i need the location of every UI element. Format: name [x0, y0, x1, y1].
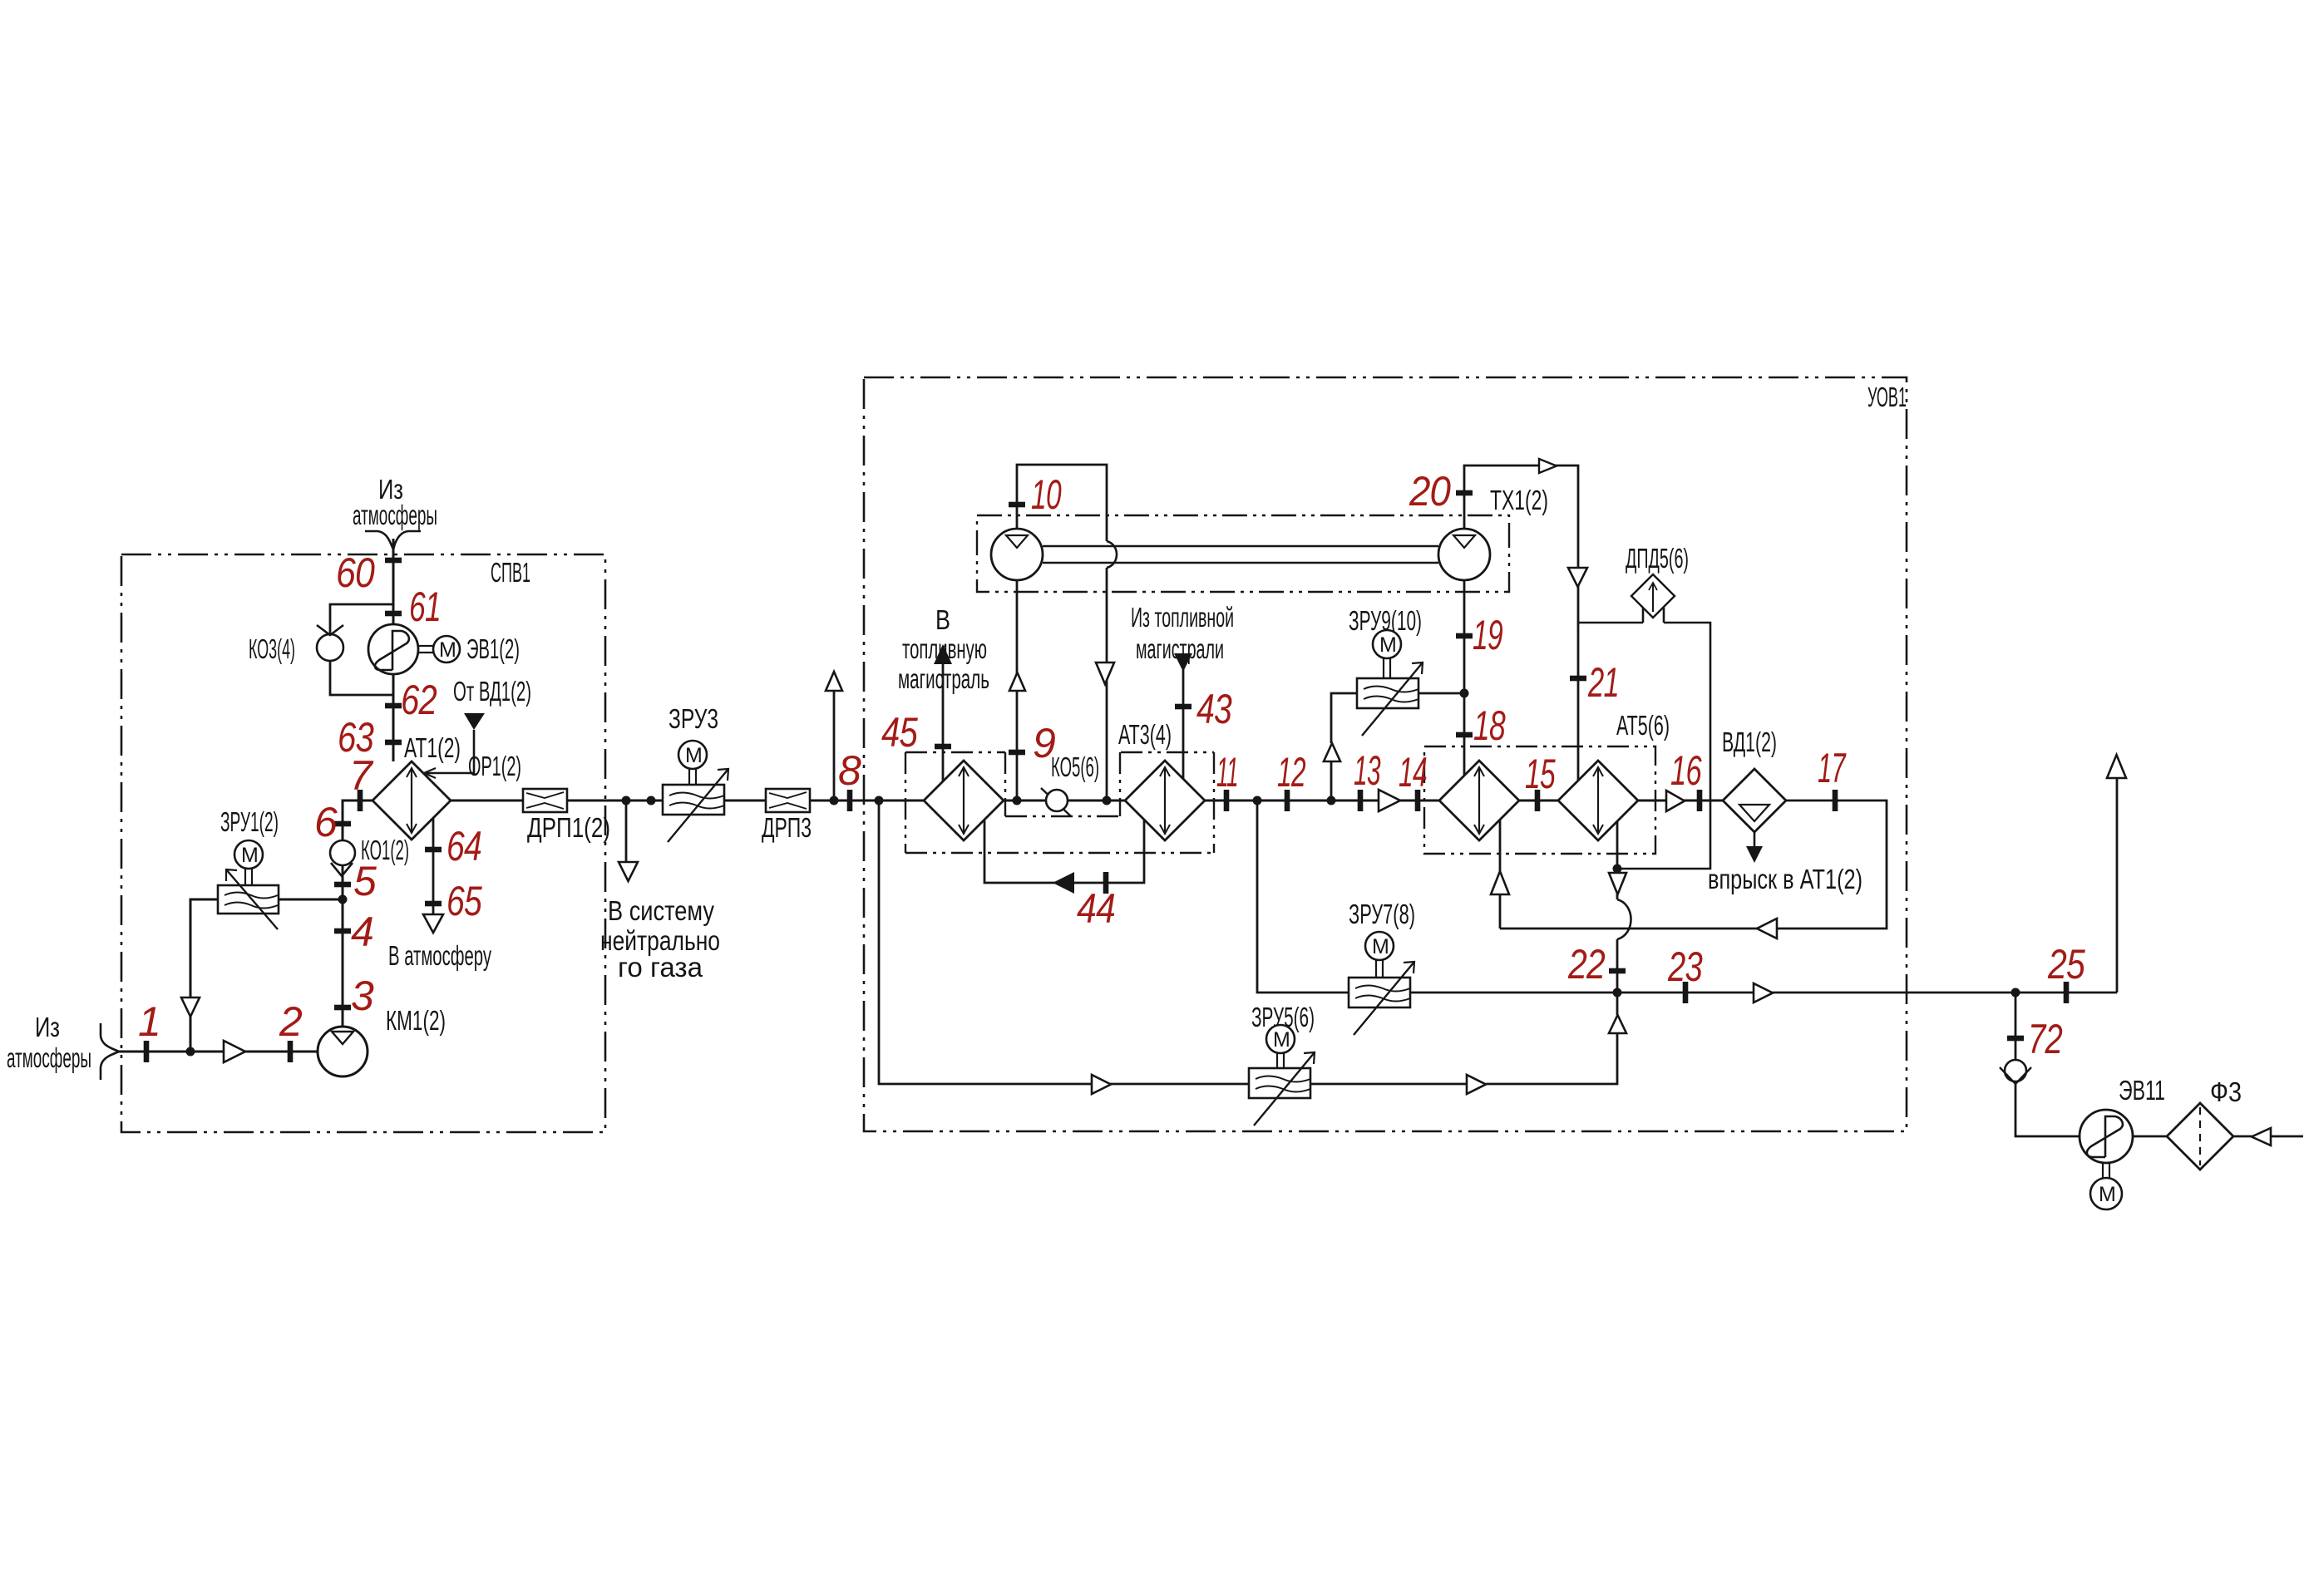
svg-text:63: 63 [338, 714, 374, 761]
svg-text:ЗРУ3: ЗРУ3 [669, 703, 718, 734]
node 6 [334, 821, 351, 827]
wire between АТ5 halves [1519, 800, 1558, 802]
check valve КО3(4) [317, 634, 343, 661]
node 15 [1535, 790, 1541, 811]
flow arrow right on top loop [1539, 459, 1557, 473]
svg-text:11: 11 [1216, 749, 1238, 796]
svg-text:Ф3: Ф3 [2210, 1076, 2242, 1107]
svg-text:3: 3 [351, 973, 374, 1019]
node 43 branch from fuel line [1131, 602, 1234, 779]
check arrow down on branch [181, 997, 200, 1017]
svg-text:2: 2 [279, 998, 303, 1045]
svg-text:13: 13 [1354, 747, 1381, 794]
svg-text:10: 10 [1031, 471, 1062, 518]
node 62 [385, 703, 402, 709]
junction node 72 branch [2011, 988, 2020, 997]
wire КО5 to АТ3 [1068, 800, 1125, 802]
node 7 [358, 790, 363, 811]
restrictor ДРП1(2) [523, 789, 610, 843]
node 1 [144, 1041, 150, 1062]
node 23 [1683, 982, 1689, 1003]
node 18 [1456, 732, 1473, 738]
atmosphere inlet horn left [101, 1023, 119, 1080]
flow arrow before node 16 [1666, 791, 1685, 811]
node 43 [1175, 704, 1192, 710]
backbone wire to atmosphere top [392, 539, 395, 761]
node 64 [425, 847, 442, 853]
svg-text:впрыск в АТ1(2): впрыск в АТ1(2) [1708, 864, 1862, 894]
enclosure box УОВ1 [864, 377, 1907, 1131]
svg-text:Из: Из [35, 1012, 60, 1042]
svg-text:АТ3(4): АТ3(4) [1118, 719, 1172, 750]
wire inlet line [118, 1051, 318, 1053]
filter Ф3 [2167, 1076, 2242, 1170]
injection drop to АТ1 [1708, 832, 1862, 894]
svg-text:М: М [1372, 935, 1389, 958]
solenoid valve ЭВ11 [2080, 1075, 2165, 1209]
node 12 [1285, 790, 1290, 811]
svg-text:43: 43 [1196, 686, 1232, 732]
svg-text:ВД1(2): ВД1(2) [1722, 727, 1777, 757]
svg-text:КМ1(2): КМ1(2) [386, 1005, 446, 1036]
heat exchanger АТ5 second [1558, 761, 1638, 840]
node 60 [385, 558, 402, 564]
node 2 [288, 1041, 294, 1062]
wire ДРП3 into УОВ1 [810, 800, 924, 802]
svg-text:М: М [2099, 1183, 2116, 1206]
svg-text:1: 1 [138, 998, 160, 1045]
node 72 [2007, 1036, 2024, 1042]
node 20 [1456, 490, 1473, 496]
svg-text:ЭВ11: ЭВ11 [2119, 1075, 2165, 1106]
svg-text:магистраль: магистраль [898, 663, 989, 694]
enclosure box АТ5(6) [1424, 746, 1655, 854]
junction dot [647, 796, 656, 805]
flow arrow before node 14 [1379, 790, 1400, 811]
junction for neutral gas branch [622, 796, 631, 805]
node 61 [385, 611, 402, 617]
svg-text:М: М [439, 638, 456, 662]
node 21 [1570, 676, 1586, 682]
solenoid valve ЭВ1(2) [368, 624, 520, 674]
svg-text:ДРП1(2): ДРП1(2) [527, 812, 610, 843]
wire Ф3 outlet [2233, 1135, 2303, 1138]
wire ЗРУ7 branch [1257, 800, 1617, 993]
node 8 [847, 790, 853, 811]
wire ВД1 to node 17 and return loop [1500, 800, 1887, 929]
arrow up into АТ5 [1491, 871, 1509, 894]
wire jump hook [1617, 899, 1631, 939]
node 5 [334, 882, 351, 888]
svg-text:44: 44 [1077, 885, 1115, 932]
arrow 44 left [1053, 872, 1074, 894]
wire ЗРУ9 inlet from main [1331, 693, 1357, 800]
svg-text:В систему: В систему [608, 895, 714, 926]
bypass wire with КО3(4) [330, 604, 393, 695]
svg-text:14: 14 [1399, 749, 1427, 796]
pump 10 top loop wire [1017, 465, 1107, 800]
wire ЗРУ5 bypass [879, 800, 1617, 1084]
flow arrow right on inlet [224, 1041, 245, 1062]
svg-text:М: М [1379, 633, 1397, 657]
arrow up into node 22 junction [1609, 1015, 1626, 1033]
svg-text:атмосферы: атмосферы [7, 1042, 91, 1073]
svg-text:ДРП3: ДРП3 [762, 812, 812, 843]
atmosphere inlet horn top [365, 531, 421, 554]
node 65 [425, 901, 442, 907]
node 17 [1833, 790, 1838, 811]
svg-text:ДПД5(6): ДПД5(6) [1626, 543, 1689, 574]
return arrow left [1757, 919, 1777, 938]
node 25 [2064, 982, 2070, 1003]
heat exchanger АТ3(4) [1118, 719, 1205, 840]
regulator ЗРУ9(10) [1349, 605, 1423, 736]
node 45 branch to fuel line [881, 604, 989, 781]
pump 20 top loop wire [1464, 465, 1578, 781]
svg-text:62: 62 [401, 677, 437, 723]
return arrow down [1096, 663, 1114, 684]
svg-text:72: 72 [2028, 1016, 2063, 1062]
node 10 [1009, 502, 1025, 508]
wire АТ5 to ВД1 [1638, 800, 1723, 802]
node 3 [334, 1005, 351, 1011]
junction ЗРУ7 branch [1253, 796, 1262, 805]
vent wire up [833, 691, 836, 800]
svg-text:25: 25 [2047, 941, 2085, 988]
check valve at 72 [2005, 1060, 2026, 1081]
svg-text:19: 19 [1473, 612, 1502, 658]
svg-text:45: 45 [881, 709, 918, 756]
svg-text:КО3(4): КО3(4) [249, 633, 295, 664]
junction node 22 column and ЗРУ7 line [1613, 988, 1622, 997]
shaft between pumps [1043, 545, 1438, 548]
junction pump 10 column [1013, 796, 1022, 805]
node 14 [1415, 790, 1421, 811]
svg-text:65: 65 [447, 878, 482, 924]
svg-text:ОР1(2): ОР1(2) [468, 751, 521, 781]
svg-text:КО5(6): КО5(6) [1051, 751, 1099, 782]
check valve КО1(2) [330, 840, 355, 865]
arrow up ЗРУ9 inlet [1324, 743, 1340, 761]
АТ5 drain column node 22 [1567, 821, 1631, 993]
svg-text:М: М [1273, 1028, 1290, 1052]
bypass wire 44 [984, 820, 1144, 883]
node 16 [1697, 790, 1703, 811]
svg-text:20: 20 [1409, 468, 1451, 515]
node 11 [1224, 790, 1230, 811]
breather В систему нейтрального газа [619, 862, 638, 881]
svg-text:го газа: го газа [618, 952, 703, 983]
gauge ДПД5(6) branch [1578, 543, 1710, 869]
svg-text:9: 9 [1033, 720, 1055, 766]
svg-text:16: 16 [1670, 747, 1702, 794]
vent arrow up right [2107, 755, 2126, 778]
svg-text:АТ1(2): АТ1(2) [404, 732, 461, 763]
injector ОР1(2) from ВД1 [424, 676, 531, 781]
svg-text:17: 17 [1818, 745, 1847, 791]
wire ЗРУ3 to ДРП3 [724, 800, 766, 802]
node 19 [1456, 633, 1473, 639]
svg-text:ЗРУ1(2): ЗРУ1(2) [220, 806, 279, 837]
wire node 23 to node 25 [1617, 992, 2117, 994]
pump 10 [991, 529, 1043, 580]
main wire АТ3 to АТ5 [1205, 800, 1439, 802]
wire ЗРУ9 to pump20 column [1418, 692, 1464, 695]
restrictor ДРП3 [762, 789, 812, 843]
heat exchanger АТ1(2) [372, 732, 461, 840]
junction vent [830, 796, 839, 805]
node 44 [1103, 872, 1109, 894]
arrow down on 21 column [1568, 568, 1587, 587]
junction [186, 1047, 195, 1057]
breather В атмосферу [423, 914, 443, 933]
check valve КО5(6) [1041, 751, 1099, 816]
vent to atmosphere wire with nodes 64 65 [432, 818, 435, 914]
junction ЗРУ9 outlet [1460, 689, 1469, 698]
pump 20 [1438, 529, 1490, 580]
flow arrow right [1754, 983, 1773, 1002]
enclosure box around heat exchanger D1 and АТ3 group [905, 752, 1214, 853]
svg-text:СПВ1: СПВ1 [491, 557, 530, 588]
svg-text:6: 6 [314, 799, 338, 845]
svg-text:М: М [241, 844, 259, 867]
svg-text:атмосферы: атмосферы [353, 500, 437, 530]
svg-text:ЭВ1(2): ЭВ1(2) [466, 633, 520, 664]
enclosure box ТХ1(2) [977, 515, 1509, 592]
junction ДПД5 return [1613, 864, 1622, 874]
wire ДРП1 to ЗРУ3 [567, 800, 663, 802]
svg-text:18: 18 [1473, 702, 1506, 749]
junction ЗРУ1 outlet [338, 895, 348, 904]
junction bottom bypass [875, 796, 884, 805]
svg-text:В: В [935, 604, 950, 635]
svg-text:22: 22 [1567, 941, 1606, 988]
compressor КМ1(2) [318, 1027, 368, 1076]
svg-text:ЗРУ7(8): ЗРУ7(8) [1349, 899, 1415, 929]
flow arrow on ЗРУ5 line left [1092, 1075, 1111, 1094]
svg-text:60: 60 [336, 549, 375, 596]
wire jump over shaft [1107, 541, 1117, 568]
svg-text:УОВ1: УОВ1 [1867, 382, 1907, 412]
svg-text:64: 64 [447, 823, 481, 869]
water separator ВД1(2) [1722, 727, 1786, 832]
vent arrow up [826, 672, 842, 691]
svg-text:От ВД1(2): От ВД1(2) [453, 676, 531, 707]
svg-text:4: 4 [351, 909, 373, 955]
svg-text:8: 8 [838, 747, 861, 794]
svg-text:23: 23 [1667, 943, 1703, 990]
vent wire up right [2116, 778, 2119, 993]
pump 20 lower column [1456, 580, 1506, 776]
svg-text:АТ5(6): АТ5(6) [1616, 710, 1670, 741]
node 13 [1358, 790, 1364, 811]
svg-text:21: 21 [1587, 659, 1619, 706]
svg-text:магистрали: магистрали [1136, 633, 1224, 664]
svg-text:М: М [685, 744, 703, 767]
wire branch to ЗРУ1 [190, 899, 342, 1052]
wire compressor to node 7 column [343, 800, 372, 1027]
flow arrow left at outlet [2252, 1128, 2271, 1145]
svg-text:12: 12 [1277, 749, 1306, 796]
svg-text:Из топливной: Из топливной [1131, 602, 1234, 633]
wire АТ1 to ДРП1 [451, 800, 523, 802]
node 4 [334, 929, 351, 934]
svg-text:61: 61 [409, 584, 441, 630]
flow arrow on ЗРУ5 line right [1467, 1075, 1486, 1094]
wire ЭВ11 to Ф3 [2133, 1135, 2167, 1138]
node 45 [935, 744, 951, 750]
node 9 [1009, 750, 1025, 756]
node 63 [385, 740, 402, 746]
heat exchanger D1 [924, 761, 1004, 840]
svg-text:В атмосферу: В атмосферу [388, 940, 491, 971]
wire D1 to КО5 [1004, 800, 1046, 802]
enclosure box СПВ1 [121, 554, 605, 1132]
pump 10 supply column [1009, 580, 1055, 800]
regulator ЗРУ7(8) [1349, 899, 1415, 1035]
svg-text:ТХ1(2): ТХ1(2) [1490, 485, 1548, 515]
heat exchanger АТ5 first [1439, 761, 1519, 840]
node 22 [1609, 968, 1626, 974]
arrow down on drain [1609, 873, 1626, 894]
wire neutral gas drop [625, 800, 628, 862]
junction ЗРУ9 inlet [1327, 796, 1336, 805]
svg-text:15: 15 [1525, 751, 1556, 797]
svg-text:КО1(2): КО1(2) [361, 835, 409, 865]
regulator ЗРУ3 [663, 703, 728, 842]
regulator ЗРУ5(6) [1249, 1002, 1315, 1126]
wire node 72 drop [2015, 993, 2080, 1136]
svg-text:топливную: топливную [902, 633, 987, 664]
junction pump 10 return column [1103, 796, 1112, 805]
regulator ЗРУ1(2) [218, 806, 279, 929]
